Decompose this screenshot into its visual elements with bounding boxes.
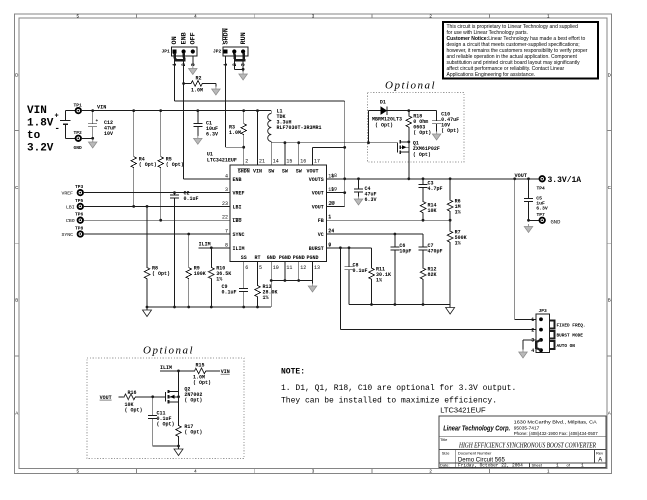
svg-text:Title: Title [440,437,448,442]
svg-text:OFF: OFF [190,32,198,44]
wire VOUT rail [326,173,539,180]
resistor R10 36.5K [209,248,232,307]
svg-text:2: 2 [245,158,248,164]
svg-text:( Opt): ( Opt) [157,422,175,428]
svg-text:D1: D1 [380,100,386,106]
capacitor C9 0.1uF on SS [222,261,249,307]
svg-text:LBI: LBI [233,204,242,210]
svg-text:82K: 82K [428,272,437,278]
JP3 shunt on pins 3-4 [536,340,541,350]
svg-text:JP3: JP3 [539,308,548,314]
svg-text:VIN: VIN [27,105,47,117]
test point TP6 LBO [66,212,84,225]
wire D1 anode to SW [367,111,370,145]
svg-text:6: 6 [245,265,248,271]
svg-text:10pF: 10pF [399,249,411,255]
svg-text:Linear Technology Corp.: Linear Technology Corp. [443,424,510,433]
resistor R12 82K [420,266,436,304]
ground at JP1 pin3 [189,66,198,75]
svg-text:1.8V: 1.8V [27,118,54,130]
ground at R2 [212,87,221,96]
battery BT1 [55,111,76,139]
svg-text:AUTO ON: AUTO ON [557,344,576,349]
svg-text:( Opt): ( Opt) [193,380,211,386]
svg-text:GND: GND [74,145,83,151]
svg-text:Optional: Optional [143,345,194,357]
svg-text:1630 McCarthy Blvd., Milpitas,: 1630 McCarthy Blvd., Milpitas, CA [514,420,598,426]
svg-text:Size: Size [442,451,451,456]
ground at JP2 [239,72,248,81]
voltage source VIN 1.8V to 3.2V [27,105,54,155]
resistor R13 28.0K on RT [255,261,278,307]
resistor R17 (Opt) [176,402,203,446]
svg-text:SW: SW [268,168,274,174]
test point TP4 output 3.3V/1A [537,176,582,192]
wire BURST row [326,242,371,249]
svg-text:SW: SW [296,168,302,174]
ground at C4 [354,197,363,206]
svg-text:1%: 1% [455,240,461,246]
capacitor C5 1uF [524,179,548,221]
svg-text:LBO: LBO [233,218,242,224]
wire VOUT to JP3 pin1 [515,179,536,319]
svg-text:( Opt): ( Opt) [413,130,431,136]
resistor R18 0 Ohm [406,109,431,141]
wire FB row [326,214,451,221]
svg-text:FIXED FREQ.: FIXED FREQ. [557,323,586,328]
resistor R2 1.0M [182,76,216,94]
wire ENB from JP1 pin2 down to U1 pin4 [184,56,230,179]
JP1 shunt on pins 1-2 [174,53,184,60]
svg-text:Sheet: Sheet [532,463,543,468]
test point TP8 SYNC [62,225,84,238]
svg-text:VOUT: VOUT [100,395,112,401]
svg-text:A: A [15,410,18,415]
svg-text:17: 17 [314,158,320,164]
svg-text:0.1uF: 0.1uF [184,196,199,202]
wire ON net JP1 pin1 to VOUT column [174,56,344,101]
svg-text:( Opt): ( Opt) [184,430,202,436]
resistor R4 (Opt) [131,109,157,206]
svg-text:15: 15 [286,158,292,164]
jumper JP3 mode select [531,308,585,354]
svg-text:10K: 10K [428,208,437,214]
svg-text:1: 1 [556,463,559,469]
svg-text:3.3V/1A: 3.3V/1A [548,176,582,185]
svg-text:Phone: (408)432-1900 Fax: (408: Phone: (408)432-1900 Fax: (408)434-0507 [514,431,598,437]
svg-text:3: 3 [241,63,247,66]
ground at C10 [432,132,441,141]
svg-text:( Opt): ( Opt) [441,128,459,134]
node ILIM stub [199,242,230,250]
wire JP2 pins 2-3 to ground [234,56,244,72]
svg-text:TP2: TP2 [74,130,83,136]
wire JP3 pin3 to ground [523,340,536,350]
title block [439,406,606,469]
svg-text:R16: R16 [128,390,137,396]
svg-text:2: 2 [232,63,238,66]
jumper JP2 SHDN/RUN [213,28,248,66]
svg-text:ON: ON [171,36,179,44]
ground PGND [308,284,317,293]
transistor Q1 ZXM61P02F PMOS [397,140,440,179]
transistor Q2 2N7002 NMOS [153,371,203,404]
svg-text:SYNC: SYNC [62,232,74,238]
svg-text:VOUTS: VOUTS [309,177,324,183]
wire LBO row [83,219,230,222]
svg-text:1: 1 [223,63,229,66]
optional dashed box D1 Q1 R18 C10 [368,93,465,163]
diode D1 MBRM120LT3 [369,100,409,129]
svg-text:TP7: TP7 [537,212,546,218]
test point TP7 GND [527,212,561,225]
svg-text:+: + [55,113,59,121]
svg-text:VREF: VREF [233,191,245,197]
resistor R3 1.0M pullup [229,109,247,165]
svg-text:ILIM: ILIM [160,365,172,371]
test point TP2 [76,136,81,141]
svg-text:FB: FB [318,218,324,224]
svg-text:1: 1 [531,317,534,323]
svg-text:TP8: TP8 [75,225,84,231]
svg-text:BURST MODE: BURST MODE [557,334,584,339]
proprietary notice box [443,22,598,79]
wire VOUTS column pins 19 20 17 [313,101,347,206]
note text [281,368,516,406]
svg-text:TP6: TP6 [75,212,84,218]
svg-text:RUN: RUN [240,32,248,44]
svg-text:Date:: Date: [440,463,450,468]
svg-text:LBO: LBO [66,218,75,224]
svg-text:4.7pF: 4.7pF [428,186,443,192]
svg-text:SW: SW [282,168,288,174]
svg-text:4: 4 [531,348,534,354]
svg-text:TP5: TP5 [75,198,84,204]
svg-text:VIN: VIN [97,104,106,110]
svg-text:-: - [55,124,60,134]
capacitor C8 0.1uF [345,248,368,305]
svg-text:VC: VC [318,232,324,238]
svg-text:( Opt): ( Opt) [166,162,184,168]
resistor R8 (Opt) [144,206,170,307]
ground optional box [174,446,183,456]
capacitor C3 4.7pF [419,179,443,199]
svg-text:470pF: 470pF [428,249,443,255]
svg-text:2: 2 [531,327,534,333]
svg-text:VOUT: VOUT [312,204,324,210]
wire compensation ground rail [349,303,450,306]
test point TP1 [76,108,81,113]
svg-text:1.0M: 1.0M [229,130,241,136]
svg-text:1: 1 [328,214,331,220]
svg-text:GND: GND [267,255,276,261]
svg-text:21: 21 [259,158,265,164]
capacitor C12 [88,109,116,140]
svg-text:12: 12 [300,265,306,271]
svg-text:95035-7417: 95035-7417 [514,425,540,431]
svg-text:TP1: TP1 [74,103,83,109]
svg-text:Applications Engineering for a: Applications Engineering for assistance. [447,72,536,78]
svg-text:JP2: JP2 [213,49,222,55]
svg-text:16: 16 [300,158,306,164]
svg-text:24: 24 [328,228,334,234]
svg-text:B: B [608,298,611,303]
svg-text:20: 20 [329,200,335,206]
svg-text:LTC3421EUF: LTC3421EUF [207,157,237,163]
wire TP2 to ground [81,137,93,139]
svg-text:B: B [15,298,18,303]
svg-text:VOUT: VOUT [515,173,527,179]
node ILIM stub 2 [160,365,193,372]
resistor R14 10K [420,199,436,221]
ground at JP3 [519,350,528,359]
svg-text:5: 5 [259,265,262,271]
svg-text:SS: SS [241,255,247,261]
svg-text:19: 19 [331,187,337,193]
svg-text:1%: 1% [455,209,461,215]
wire SW node [271,141,397,165]
wire JP1 pin3 to ground [192,56,194,66]
wire PGND tie [270,261,313,283]
svg-text:1%: 1% [216,277,222,283]
svg-text:3: 3 [190,63,196,66]
svg-text:RLF7030T-3R3MR1: RLF7030T-3R3MR1 [277,125,322,131]
svg-text:R2: R2 [196,76,202,82]
svg-text:6.3V: 6.3V [365,197,377,203]
svg-text:TP3: TP3 [75,184,84,190]
capacitor C7 470pF [419,243,443,266]
capacitor C10 0.47uF [409,111,459,134]
wire SYNC row [83,233,230,236]
ground analog [143,307,152,317]
svg-text:1%: 1% [263,295,269,301]
svg-text:( Opt): ( Opt) [375,123,393,129]
resistor R5 (Opt) [158,109,184,220]
svg-text:Friday, October 22, 2004: Friday, October 22, 2004 [458,463,523,469]
svg-text:10V: 10V [104,131,113,137]
resistor R9 100K [186,234,206,307]
wire VIN rail [81,110,271,112]
svg-text:A: A [598,457,602,463]
wire VIN to U1 pin21 [256,109,259,165]
wire analog ground rail [146,281,272,309]
svg-text:VIN: VIN [253,168,262,174]
optional dashed box Q2 ILIM [87,358,244,459]
svg-text:( Opt): ( Opt) [413,152,431,158]
svg-text:9: 9 [328,242,331,248]
svg-text:PGND: PGND [293,255,305,261]
svg-text:R15: R15 [196,363,205,369]
svg-text:ILIM: ILIM [199,242,211,248]
svg-text:( Opt): ( Opt) [184,398,202,404]
resistor R16 10K [119,390,155,413]
svg-text:BURST: BURST [309,246,324,252]
svg-text:ENB: ENB [233,177,242,183]
jumper JP1 ON/ENB/OFF [162,32,198,66]
svg-text:1%: 1% [376,277,382,283]
svg-text:3: 3 [531,338,534,344]
svg-text:Document Number: Document Number [458,451,492,456]
svg-text:TP4: TP4 [537,186,546,192]
svg-text:VREF: VREF [62,191,74,197]
svg-text:11: 11 [286,265,292,271]
svg-text:VIN: VIN [221,369,230,375]
svg-text:2: 2 [181,63,187,66]
wire BURST to JP3 pin2 [340,248,536,330]
svg-text:1: 1 [581,463,584,469]
svg-text:VOUT: VOUT [306,168,318,174]
wire VC row [326,228,423,245]
capacitor C2 0.1uF [170,191,199,308]
svg-text:4: 4 [225,173,228,179]
svg-text:1. D1, Q1, R18, C10 are option: 1. D1, Q1, R18, C10 are optional for 3.3… [281,384,516,393]
svg-text:Optional: Optional [385,80,436,92]
test point TP5 LBI [66,198,84,211]
svg-text:NOTE:: NOTE: [281,368,305,377]
svg-text:1: 1 [172,63,178,66]
svg-text:A: A [608,410,611,415]
wire optional ground [153,445,180,448]
op IC U1 LTC3421EUF [207,151,336,270]
ground compensation [446,305,455,315]
svg-text:PGND: PGND [306,255,318,261]
svg-text:VOUT: VOUT [312,191,324,197]
svg-text:to: to [27,130,41,142]
svg-text:PGND: PGND [279,255,291,261]
ground GND at input [74,140,98,151]
wire VREF row [83,192,230,194]
capacitor C4 47uF [354,179,377,203]
svg-text:ENB: ENB [180,32,188,44]
capacitor C6 10pF [390,234,411,305]
svg-text:1.0M: 1.0M [191,88,203,94]
svg-text:They can be installed to maxim: They can be installed to maximize effici… [281,397,497,406]
svg-text:LBI: LBI [66,205,75,211]
svg-text:HIGH EFFICIENCY SYNCHRONOUS BO: HIGH EFFICIENCY SYNCHRONOUS BOOST CONVER… [458,442,596,449]
svg-text:( Opt): ( Opt) [125,408,143,414]
svg-text:Demo Circuit 565: Demo Circuit 565 [458,456,505,463]
svg-text:6.3V: 6.3V [536,205,548,211]
svg-text:GND: GND [551,218,562,225]
svg-text:14: 14 [273,158,279,164]
svg-text:SHDN: SHDN [238,168,250,174]
svg-text:+: + [96,119,99,124]
svg-text:13: 13 [314,265,320,271]
JP2 shunt on pins 2-3 [234,53,244,60]
resistor R6 1M [447,179,460,220]
svg-text:10: 10 [273,265,279,271]
inductor L1 3.3uH RLF7030T-3R3MR1 [268,109,322,143]
svg-text:0.1uF: 0.1uF [353,268,368,274]
capacitor C11 0.1uF [148,397,174,446]
svg-text:0.1uF: 0.1uF [222,290,237,296]
svg-text:6.3V: 6.3V [206,132,218,138]
wire SHDN from JP2 pin1 [226,56,246,149]
svg-text:RT: RT [254,255,260,261]
ground at C5 [524,224,533,233]
svg-text:18: 18 [331,173,337,179]
svg-text:JP1: JP1 [162,49,171,55]
svg-text:SHDN: SHDN [222,28,230,44]
capacitor C1 10uF [193,109,218,137]
test point TP3 VREF [62,184,84,197]
svg-text:100K: 100K [194,271,206,277]
svg-text:( Opt): ( Opt) [152,271,170,277]
resistor R11 30.1K [369,248,391,305]
wire LBI row [83,205,230,208]
svg-text:SYNC: SYNC [233,232,245,238]
svg-text:ILIM: ILIM [233,246,245,252]
resistor R7 500K [447,220,466,304]
ground at C1 [194,136,203,145]
svg-text:3.2V: 3.2V [27,143,54,155]
svg-text:Rev: Rev [596,451,603,456]
svg-text:LTC3421EUF: LTC3421EUF [440,406,486,415]
svg-text:( Opt): ( Opt) [139,162,157,168]
resistor R15 1.0M [193,363,220,386]
